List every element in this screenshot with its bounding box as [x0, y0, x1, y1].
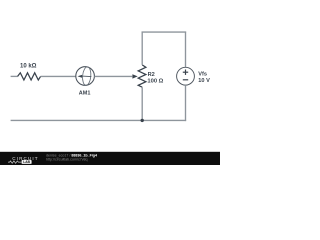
svg-text:LAB: LAB: [23, 160, 30, 164]
junction: R2 / bottom rail: [141, 119, 144, 122]
svg-text:10 kΩ: 10 kΩ: [20, 63, 37, 69]
logo LAB box: [22, 160, 32, 164]
potentiometer R2 wiper arrow: [132, 74, 137, 78]
wire: AM1 to R2 wiper: [94, 75, 132, 77]
watermark bar: [0, 152, 220, 165]
ammeter AM1 arrowhead: [78, 75, 83, 78]
wire: top rail: [142, 31, 187, 33]
resistor R2: [138, 65, 146, 87]
wire: R2 bottom vertical: [141, 87, 143, 120]
voltage source Vfs body: [177, 67, 195, 85]
svg-text:10 V: 10 V: [198, 78, 210, 84]
ammeter AM1 needle: [82, 75, 92, 78]
ammeter AM1 body: [76, 67, 95, 86]
ammeter AM1 sense loop: [82, 67, 92, 86]
wire: left stub into R1: [11, 75, 18, 77]
svg-text:R2: R2: [148, 72, 155, 78]
logo zigzag: [8, 161, 21, 163]
wire: Vfs to bottom rail: [185, 85, 187, 121]
wire: bottom rail: [11, 119, 187, 121]
resistor R1: [18, 73, 41, 80]
wire: right vertical to Vfs: [185, 32, 187, 68]
Vfs plus sign: [183, 70, 188, 75]
wire: R2 top vertical: [141, 32, 143, 65]
svg-text:Vfs: Vfs: [198, 72, 207, 78]
svg-text:AM1: AM1: [79, 91, 91, 97]
Vfs minus sign: [183, 79, 188, 81]
svg-text:http://circuitlab.com/c7v8q: http://circuitlab.com/c7v8q: [46, 158, 88, 162]
svg-text:100 Ω: 100 Ω: [147, 79, 163, 85]
wire: R1 to AM1: [41, 75, 76, 77]
